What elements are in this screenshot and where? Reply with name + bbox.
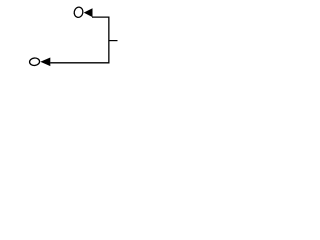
wire: top horizontal segment: [92, 16, 109, 18]
wire: right vertical segment: [108, 17, 110, 64]
arrowhead into node N2: [40, 58, 50, 67]
arrowhead into node N1: [84, 8, 93, 17]
wire: stub tick: [109, 40, 118, 42]
node N1 (top ellipse terminal): [73, 6, 84, 18]
wire: bottom horizontal segment: [50, 62, 109, 64]
node N2 (bottom ellipse terminal): [29, 58, 40, 66]
